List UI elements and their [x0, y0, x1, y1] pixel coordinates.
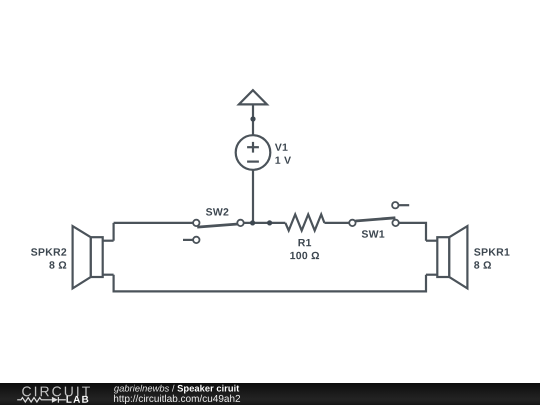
footer author name — [114, 385, 169, 394]
label SPKR1 8 ohm — [474, 261, 491, 268]
wire SW1 to right corner — [399, 223, 426, 241]
switch SW1 — [349, 202, 409, 226]
junction dot — [250, 220, 255, 225]
wire left bus — [114, 222, 194, 224]
wire R1 to SW1 — [324, 222, 349, 224]
speaker SPKR2 — [73, 226, 114, 288]
label SPKR2 — [31, 248, 66, 255]
wire triangle to V1 — [252, 104, 254, 135]
wire V1 to bus — [252, 170, 254, 223]
label 100 ohm — [290, 252, 319, 259]
resistor R1 — [285, 214, 324, 230]
logo text CIRCUIT — [22, 386, 90, 396]
wire left riser — [112, 223, 114, 241]
label SW1 — [362, 230, 385, 237]
footer url — [114, 395, 240, 404]
wire bottom loop — [114, 275, 426, 292]
speaker SPKR1 — [426, 226, 467, 288]
label V1 — [275, 144, 288, 151]
switch SW2 — [183, 220, 244, 243]
label SPKR1 — [474, 248, 509, 255]
node VCC triangle — [239, 90, 267, 104]
voltage source V1 — [236, 135, 271, 170]
label SW2 — [206, 208, 229, 215]
label SPKR2 8 ohm — [49, 261, 66, 268]
logo text LAB — [66, 396, 88, 403]
wire SW2 to R1 — [244, 222, 286, 224]
footer separator — [172, 385, 175, 392]
footer circuit title — [177, 385, 239, 394]
logo resistor and diode — [17, 397, 66, 403]
footer bar — [0, 383, 540, 405]
label R1 — [298, 239, 311, 246]
junction dot — [250, 116, 255, 121]
junction dot — [267, 220, 272, 225]
label 1 V — [275, 157, 291, 164]
